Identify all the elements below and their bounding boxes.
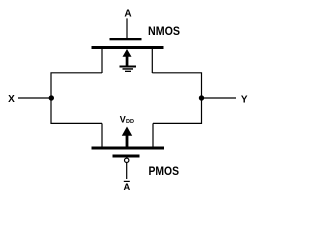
svg-text:PMOS: PMOS (149, 166, 180, 178)
svg-text:NMOS: NMOS (148, 26, 180, 38)
transistor Q2 PMOS source lead (101, 123, 103, 147)
wire X lead (18, 97, 51, 99)
svg-text:X: X (8, 94, 15, 105)
transistor Q2 PMOS gate bar (113, 155, 140, 158)
transistor Q1 NMOS source lead (101, 49, 103, 74)
transistor Q1 NMOS gate bar (110, 38, 142, 40)
node A-bar label (124, 181, 130, 182)
wire left loop (51, 73, 102, 124)
svg-text:A: A (124, 8, 131, 19)
transistor Q2 PMOS channel bar (92, 147, 165, 150)
wire PMOS gate lead (126, 163, 128, 179)
wire right loop (152, 73, 201, 124)
transistor Q2 PMOS drain lead (152, 123, 154, 147)
transistor Q1 NMOS bulk arrow (123, 49, 132, 57)
node Y junction (199, 95, 204, 100)
svg-text:A: A (124, 182, 131, 192)
transistor Q2 PMOS gate bubble (125, 158, 129, 162)
svg-text:DD: DD (126, 119, 134, 125)
svg-text:Y: Y (241, 95, 248, 106)
ground (120, 66, 137, 68)
transistor Q1 NMOS drain lead (151, 49, 153, 74)
transistor Q1 NMOS channel bar (92, 46, 164, 49)
wire Y lead (202, 97, 237, 99)
svg-text:V: V (120, 114, 126, 124)
node X junction (49, 95, 54, 100)
transistor Q2 PMOS bulk arrow (122, 127, 132, 136)
wire A gate lead (126, 18, 128, 38)
